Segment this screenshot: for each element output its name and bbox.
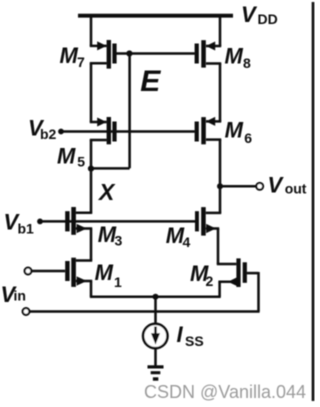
svg-text:out: out: [285, 180, 307, 196]
svg-text:3: 3: [115, 233, 123, 249]
svg-text:V: V: [268, 172, 285, 197]
svg-text:in: in: [14, 288, 26, 304]
svg-text:I: I: [177, 322, 184, 347]
svg-text:M: M: [95, 260, 114, 285]
svg-text:M: M: [57, 143, 76, 168]
svg-text:b1: b1: [18, 220, 35, 236]
svg-text:E: E: [140, 65, 161, 98]
svg-text:7: 7: [77, 54, 85, 70]
svg-text:2: 2: [206, 273, 214, 289]
svg-text:6: 6: [244, 130, 252, 146]
svg-text:M: M: [225, 44, 244, 69]
svg-text:4: 4: [183, 234, 191, 250]
svg-text:b2: b2: [40, 126, 57, 142]
svg-text:CSDN @Vanilla.044: CSDN @Vanilla.044: [144, 382, 306, 402]
svg-text:M: M: [60, 43, 79, 68]
svg-text:8: 8: [243, 55, 251, 71]
svg-text:5: 5: [77, 153, 85, 169]
svg-text:X: X: [97, 179, 116, 205]
svg-text:M: M: [225, 118, 244, 143]
svg-text:DD: DD: [258, 11, 278, 27]
svg-text:1: 1: [114, 274, 122, 290]
svg-text:SS: SS: [185, 333, 204, 349]
svg-text:V: V: [241, 2, 258, 27]
